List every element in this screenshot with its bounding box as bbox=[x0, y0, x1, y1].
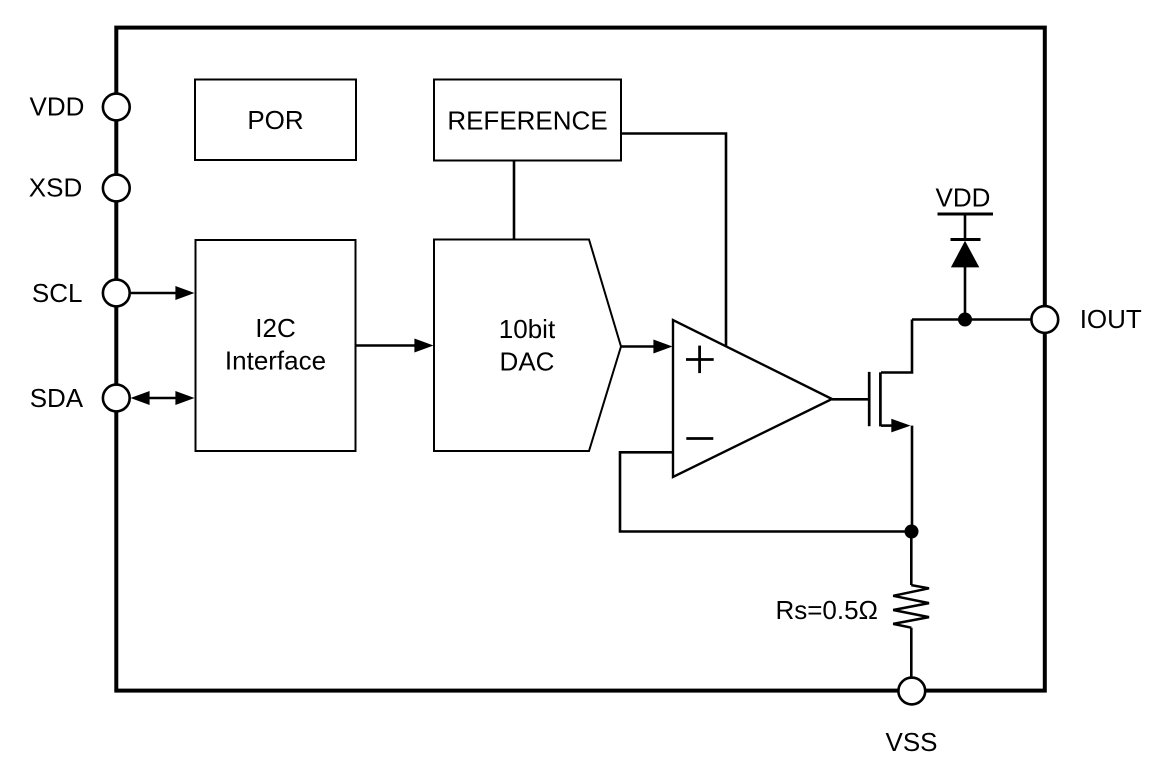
svg-text:XSD: XSD bbox=[29, 173, 82, 203]
svg-text:SCL: SCL bbox=[32, 278, 83, 308]
svg-text:REFERENCE: REFERENCE bbox=[447, 106, 607, 136]
svg-text:IOUT: IOUT bbox=[1080, 304, 1142, 334]
svg-text:VDD: VDD bbox=[30, 92, 85, 122]
svg-text:10bit: 10bit bbox=[499, 314, 556, 344]
svg-text:SDA: SDA bbox=[30, 383, 84, 413]
svg-text:VSS: VSS bbox=[885, 727, 937, 757]
svg-text:I2C: I2C bbox=[255, 313, 295, 343]
svg-text:Interface: Interface bbox=[225, 346, 326, 376]
svg-text:DAC: DAC bbox=[500, 347, 555, 377]
svg-text:POR: POR bbox=[247, 105, 303, 135]
svg-text:VDD: VDD bbox=[936, 183, 991, 213]
svg-text:Rs=0.5Ω: Rs=0.5Ω bbox=[775, 595, 878, 625]
